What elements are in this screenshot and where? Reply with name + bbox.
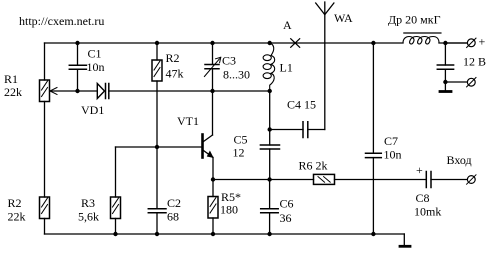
wire C1 bottom	[77, 69, 79, 91]
diode VD1 cathode bars	[106, 84, 109, 99]
wire emitter down	[212, 158, 214, 180]
capacitor C8 plates	[426, 172, 431, 188]
resistor R1 hatch marks	[42, 81, 48, 97]
junction dots	[75, 41, 79, 45]
svg-text:C7: C7	[384, 134, 398, 148]
antenna WA mast	[324, 2, 326, 130]
svg-text:68: 68	[167, 210, 179, 224]
terminal Вход circle	[467, 176, 475, 184]
wire collector branch	[212, 91, 214, 135]
wire R2 47k bottom to base wire	[156, 81, 158, 147]
svg-text:C5: C5	[234, 133, 248, 147]
svg-text:5,6k: 5,6k	[78, 210, 99, 224]
wire C7 branch top	[372, 43, 374, 153]
capacitor C4 plates	[303, 122, 308, 138]
svg-text:22k: 22k	[8, 210, 26, 224]
capacitor C6 plates	[261, 209, 279, 213]
resistor R6 body	[314, 174, 335, 184]
svg-text:WA: WA	[334, 11, 353, 25]
inductor L1 coil loops	[263, 55, 271, 61]
wire base wire	[116, 146, 203, 148]
antenna WA arms	[316, 3, 334, 15]
wire base junction to C2	[156, 147, 158, 209]
svg-text:Др 20 мкГ: Др 20 мкГ	[388, 13, 441, 27]
svg-text:C6: C6	[280, 197, 294, 211]
svg-text:R1: R1	[4, 72, 18, 86]
resistor R2 47k hatch marks	[154, 61, 160, 77]
wire top rail right segment	[439, 42, 467, 44]
ground bar 12V	[440, 90, 451, 93]
svg-text:+: +	[416, 163, 423, 177]
svg-text:C8: C8	[416, 191, 430, 205]
transistor VT1 collector slant	[204, 135, 213, 142]
inductor choke core line	[404, 32, 441, 34]
svg-text:8...30: 8...30	[223, 68, 250, 82]
terminal 12V minus circle	[467, 78, 475, 86]
capacitor C2 plates	[148, 209, 166, 213]
svg-text:180: 180	[220, 203, 238, 217]
inductor L1 coil connector	[270, 43, 275, 91]
svg-text:22k: 22k	[4, 85, 22, 99]
resistor R1 wiper arrow	[50, 88, 57, 95]
resistor R5 hatch marks	[210, 198, 216, 214]
capacitor C3 plates	[205, 65, 219, 69]
capacitor C3 arrow	[204, 59, 219, 77]
capacitor C1 plates	[69, 65, 86, 69]
wire R6 to C8	[335, 179, 427, 181]
svg-text:C1: C1	[88, 47, 102, 61]
svg-text:C3: C3	[222, 54, 236, 68]
wire R5 bottom to rail	[212, 218, 214, 234]
wire R1 bottom to R2	[44, 102, 46, 198]
wire C8 to input terminal	[431, 179, 467, 181]
svg-text:12 В: 12 В	[463, 55, 486, 69]
wire C1 branch top	[77, 43, 79, 65]
resistor R5 body	[208, 197, 218, 219]
wire to lower 12V terminal	[445, 81, 467, 83]
svg-text:+: +	[479, 35, 486, 49]
svg-text:A: A	[283, 18, 292, 32]
wire filter cap branch	[444, 43, 446, 65]
wire choke to +12V terminal	[445, 42, 467, 44]
svg-text:47k: 47k	[166, 67, 184, 81]
diode VD1 (varicap) triangle	[97, 84, 104, 99]
transistor VT1 base bar	[201, 135, 204, 158]
svg-text:http://cxem.net.ru: http://cxem.net.ru	[19, 14, 104, 28]
svg-text:10n: 10n	[87, 60, 105, 74]
resistor R2 (lower left 22k)	[40, 197, 50, 219]
svg-text:Вход: Вход	[447, 153, 472, 167]
wire filter cap to lower terminal	[444, 69, 446, 82]
resistor R2 47k body	[152, 60, 162, 81]
wire C7 bottom to rail	[372, 158, 374, 234]
wire C4 wire left	[270, 129, 303, 131]
transistor VT1 emitter arrowhead	[208, 152, 213, 158]
wire R2 bottom to rail	[44, 219, 46, 235]
wire C6 bottom to rail	[269, 213, 271, 234]
node A cross mark	[291, 39, 300, 48]
wire rail to main ground	[403, 234, 405, 245]
wire emitter junction to R5	[212, 180, 214, 197]
resistor R2 hatch marks	[42, 198, 48, 214]
svg-text:R2: R2	[8, 196, 22, 210]
ground stub 12V	[444, 82, 446, 91]
capacitor C5 plates	[260, 145, 279, 149]
wire emitter output	[213, 179, 314, 181]
resistor R6 hatch marks	[318, 177, 330, 183]
ground bar main	[400, 245, 410, 248]
inductor choke coil	[403, 37, 439, 44]
svg-text:12: 12	[233, 146, 245, 160]
resistor R3 hatch marks	[113, 198, 119, 214]
wire top rail	[45, 42, 404, 44]
wire R2 upper branch top	[156, 43, 158, 60]
wire C3 branch top	[212, 43, 214, 65]
wire R3 bottom to rail	[115, 219, 117, 235]
svg-text:R6 2k: R6 2k	[299, 159, 328, 173]
svg-text:L1: L1	[280, 61, 293, 75]
resistor R3 body	[111, 197, 121, 219]
wire C5 branch	[269, 130, 271, 146]
svg-text:R2: R2	[166, 51, 180, 65]
wire bottom rail	[45, 233, 405, 235]
wire C6 branch	[269, 180, 271, 209]
terminal +12V circle	[467, 39, 475, 47]
wire C5 bottom to emitter wire	[269, 149, 271, 180]
wire R3 branch from base wire	[115, 147, 117, 197]
svg-text:10n: 10n	[384, 148, 402, 162]
wire left branch down to R1	[44, 43, 46, 80]
wire varicap bus (R1 wiper to VD1)	[50, 90, 97, 92]
wire L1 bottom to C4 junction	[269, 91, 271, 130]
svg-text:R3: R3	[81, 196, 95, 210]
wire C2 bottom to rail	[156, 213, 158, 234]
svg-text:36: 36	[280, 211, 292, 225]
svg-text:VT1: VT1	[177, 114, 199, 128]
wire C4 to antenna mast	[308, 129, 325, 131]
wire varicap bus VD1 to L1	[109, 90, 270, 92]
resistor R1 (potentiometer body)	[40, 80, 50, 102]
svg-text:C4 15: C4 15	[287, 98, 316, 112]
wire C3 bottom to bus	[212, 69, 214, 91]
svg-text:VD1: VD1	[81, 103, 104, 117]
capacitor filter plates	[437, 65, 453, 69]
capacitor C7 plates	[366, 153, 382, 157]
svg-text:C2: C2	[167, 196, 181, 210]
transistor VT1 emitter slant	[204, 151, 213, 158]
svg-text:10mk: 10mk	[414, 205, 441, 219]
